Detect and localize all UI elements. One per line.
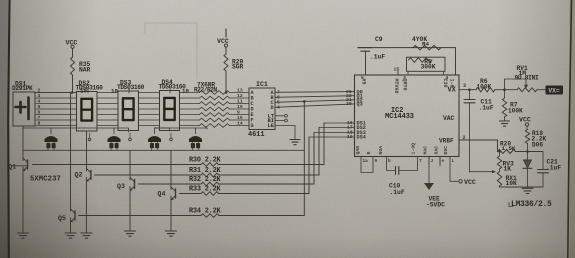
svg-text:9U 8INI: 9U 8INI	[515, 74, 539, 81]
svg-text:1.5K: 1.5K	[502, 145, 516, 152]
svg-text:D06: D06	[532, 142, 543, 149]
svg-text:.1uF: .1uF	[390, 189, 405, 196]
svg-text:19: 19	[347, 134, 353, 140]
svg-text:R30 2.2K: R30 2.2K	[189, 157, 222, 165]
svg-text:10: 10	[111, 87, 118, 94]
svg-text:11: 11	[237, 99, 243, 105]
svg-text:10: 10	[182, 87, 189, 94]
svg-text:b: b	[388, 159, 391, 164]
svg-text:-5VDC: -5VDC	[426, 202, 445, 209]
svg-text:G: G	[251, 123, 254, 129]
svg-text:15: 15	[237, 115, 243, 121]
svg-text:TDS03160: TDS03160	[117, 84, 145, 91]
svg-text:VAC: VAC	[443, 115, 455, 122]
svg-text:10: 10	[80, 87, 87, 94]
svg-text:7: 7	[419, 159, 422, 164]
svg-text:.1uF: .1uF	[370, 54, 385, 61]
svg-text:6: 6	[38, 110, 41, 116]
svg-text:DS4: DS4	[357, 135, 366, 141]
svg-text:15: 15	[394, 67, 400, 73]
svg-text:Q3: Q3	[357, 102, 363, 108]
svg-text:20: 20	[346, 101, 352, 107]
svg-text:MC14433: MC14433	[385, 113, 414, 121]
svg-text:LE: LE	[268, 123, 275, 129]
svg-text:D8C: D8C	[443, 146, 449, 155]
svg-text:.1uF: .1uF	[546, 165, 561, 172]
svg-text:R31 2.2K: R31 2.2K	[189, 167, 222, 175]
svg-text:B: B	[366, 152, 372, 155]
svg-text:14: 14	[237, 121, 243, 127]
svg-text:Q4: Q4	[158, 191, 166, 198]
svg-text:100K: 100K	[477, 83, 492, 90]
svg-text:R33 2.2K: R33 2.2K	[189, 186, 222, 194]
svg-text:12: 12	[237, 93, 243, 99]
svg-text:4: 4	[38, 99, 41, 105]
svg-text:10: 10	[237, 104, 243, 110]
svg-text:5: 5	[38, 104, 41, 110]
svg-text:3: 3	[38, 93, 41, 99]
svg-text:H5: H5	[361, 79, 367, 85]
svg-text:R4: R4	[422, 41, 429, 48]
svg-text:10K: 10K	[506, 180, 518, 187]
svg-text:LM336/2.5: LM336/2.5	[511, 200, 552, 209]
svg-text:7: 7	[38, 115, 41, 121]
svg-text:100K: 100K	[508, 108, 523, 115]
svg-text:1a: 1a	[363, 159, 369, 164]
svg-text:Q3: Q3	[117, 183, 125, 190]
svg-text:VRBF: VRBF	[439, 138, 454, 145]
svg-text:3: 3	[463, 83, 466, 89]
svg-text:D: D	[271, 105, 274, 111]
svg-text:Q2: Q2	[75, 172, 83, 179]
svg-text:Q1: Q1	[9, 164, 17, 171]
svg-text:NOA: NOA	[378, 146, 384, 155]
svg-text:VCC: VCC	[519, 117, 531, 124]
svg-text:IC1: IC1	[256, 81, 268, 88]
svg-text:1K: 1K	[504, 165, 512, 172]
svg-text:MAC: MAC	[423, 146, 429, 155]
svg-text:4: 4	[277, 104, 280, 110]
svg-text:e: e	[442, 159, 445, 164]
svg-text:D291PK: D291PK	[12, 85, 33, 92]
svg-text:QAN: QAN	[355, 146, 361, 155]
svg-text:SGR: SGR	[232, 64, 244, 71]
svg-text:9: 9	[237, 110, 240, 116]
svg-text:R34 2.2K: R34 2.2K	[189, 208, 222, 216]
svg-text:VX: VX	[448, 87, 457, 95]
svg-text:.1uF: .1uF	[479, 105, 494, 112]
svg-text:Q5: Q5	[58, 215, 66, 222]
svg-text:13: 13	[237, 88, 243, 94]
svg-text:C9: C9	[375, 36, 383, 43]
svg-text:NAR: NAR	[79, 67, 91, 74]
svg-text:VX=: VX=	[548, 87, 560, 94]
svg-text:MTVH8: MTVH8	[393, 79, 399, 94]
svg-text:5XMC237: 5XMC237	[30, 176, 61, 184]
svg-text:R32 2.2K: R32 2.2K	[189, 176, 222, 184]
svg-text:R22/R2N: R22/R2N	[194, 87, 218, 94]
svg-text:300K: 300K	[420, 63, 435, 70]
svg-text:QRT0: QRT0	[402, 79, 408, 91]
svg-text:1-9Q: 1-9Q	[411, 143, 417, 155]
svg-text:9: 9	[375, 159, 378, 164]
svg-text:J: J	[431, 159, 434, 164]
svg-text:VCC: VCC	[464, 179, 476, 186]
svg-text:4611: 4611	[248, 131, 265, 139]
svg-text:L: L	[452, 159, 455, 164]
svg-text:8: 8	[38, 121, 41, 127]
svg-text:8AC: 8AC	[434, 146, 440, 155]
